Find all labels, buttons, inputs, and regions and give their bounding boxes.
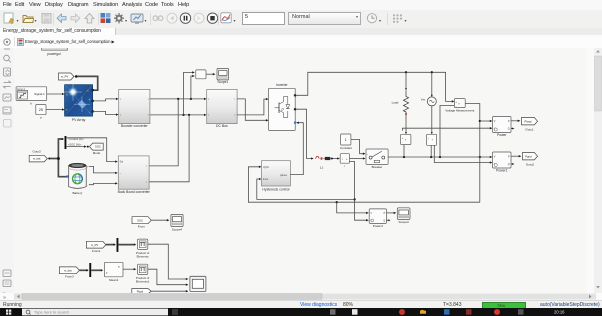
- wire: [237, 99, 267, 115]
- svg-text:Booster converter: Booster converter: [121, 124, 149, 128]
- pause button: [180, 13, 190, 23]
- svg-text:Load: Load: [392, 101, 399, 105]
- svg-text:SOC: SOC: [137, 218, 143, 222]
- wire: [350, 162, 368, 221]
- svg-text:Power3: Power3: [373, 224, 384, 228]
- svg-text:25: 25: [39, 108, 43, 112]
- monitor icon: [131, 14, 143, 22]
- back arrow: [57, 14, 66, 22]
- wire: [248, 167, 479, 202]
- mux block: [196, 70, 206, 79]
- svg-text:Power1: Power1: [496, 169, 508, 173]
- up arrow: [85, 14, 94, 24]
- wire: [237, 99, 267, 120]
- selector bar 2: [89, 263, 91, 277]
- goto tag Pload: [522, 118, 538, 125]
- svg-text:From3: From3: [65, 275, 74, 279]
- scope (multi-input): [190, 276, 206, 291]
- wire: [403, 145, 405, 157]
- wire: [191, 76, 194, 99]
- wire: [350, 158, 365, 160]
- svg-text:Signal 1: Signal 1: [34, 92, 45, 96]
- forward arrow (disabled): [71, 14, 80, 22]
- svg-text:powergui: powergui: [47, 52, 61, 56]
- wire: [148, 244, 187, 279]
- current measurement block i: [340, 154, 349, 164]
- svg-text:1: 1: [345, 138, 347, 142]
- wire: [106, 244, 115, 246]
- wire: [123, 268, 135, 270]
- wire: [150, 114, 206, 116]
- selector bar: [117, 238, 119, 252]
- current measurement block i1: [427, 134, 437, 145]
- horizontal scrollbar: [0, 293, 602, 300]
- goto tag SOC (Mode): [90, 143, 104, 150]
- svg-text:m_bat: m_bat: [33, 157, 41, 161]
- wire: [77, 76, 98, 90]
- toolbar: [0, 10, 602, 29]
- step back (disabled): [167, 13, 177, 23]
- connect icon (disabled): [153, 16, 158, 21]
- wire: [89, 183, 117, 184]
- svg-text:Sol: Sol: [120, 161, 124, 164]
- wire: [49, 158, 59, 160]
- wire: [511, 120, 519, 122]
- status bar: [0, 300, 602, 309]
- wire: [149, 115, 189, 182]
- voltage measurement block: [454, 99, 465, 108]
- wire: [257, 179, 355, 199]
- wire: [150, 98, 206, 100]
- PV Array block: [65, 85, 93, 116]
- subsystem Booster converter: [119, 90, 150, 124]
- wire: [480, 120, 491, 122]
- vertical scrollbar: [594, 48, 602, 293]
- wire: [296, 72, 453, 101]
- svg-text:DC Bus: DC Bus: [216, 124, 228, 128]
- subsystem DC Bus: [207, 90, 237, 124]
- wire: [91, 269, 102, 271]
- svg-text:Ir: Ir: [30, 101, 32, 105]
- menu bar: [0, 0, 602, 10]
- constant block 25 (temperature): [36, 105, 46, 115]
- svg-text:20:16: 20:16: [554, 310, 565, 315]
- wire: [296, 109, 312, 158]
- svg-text:SOC: SOC: [95, 145, 101, 149]
- wire: [431, 106, 433, 133]
- svg-text:<SOC (%)>: <SOC (%)>: [68, 142, 82, 146]
- inductor L1 (series RLC branch): [316, 157, 320, 159]
- svg-text:T: T: [40, 116, 42, 120]
- wire: [184, 72, 194, 115]
- svg-text:m_bat: m_bat: [64, 268, 72, 272]
- svg-text:Goto1: Goto1: [525, 127, 534, 131]
- power measurement block Power: [493, 117, 512, 133]
- wire: [465, 104, 480, 203]
- svg-text:Voltage Measurement: Voltage Measurement: [445, 109, 474, 113]
- svg-text:pulses: pulses: [280, 174, 288, 177]
- stop button: [207, 13, 217, 23]
- power measurement block Power1: [493, 152, 512, 168]
- wire: [66, 146, 85, 148]
- svg-text:Type here to search: Type here to search: [34, 310, 69, 315]
- wire: [290, 123, 303, 175]
- breadcrumb: [0, 35, 602, 49]
- wire: [66, 138, 116, 162]
- from tag m_bat (From3): [59, 267, 79, 274]
- wire: [94, 99, 118, 101]
- svg-text:From1: From1: [92, 249, 101, 253]
- battery block: [69, 166, 87, 189]
- svg-text:Vm: Vm: [421, 97, 426, 101]
- svg-text:Q: Q: [383, 221, 385, 223]
- wire: [206, 73, 214, 75]
- svg-text:Pload: Pload: [524, 119, 531, 123]
- constant block 1 (breaker control): [341, 134, 351, 145]
- svg-text:T: T: [66, 108, 68, 112]
- wire: [47, 93, 64, 95]
- svg-text:m_PV: m_PV: [61, 75, 69, 79]
- wire: [511, 155, 520, 157]
- wire: [94, 111, 118, 114]
- svg-text:<Current (A)>: <Current (A)>: [68, 137, 84, 141]
- svg-text:Scope4: Scope4: [172, 228, 183, 232]
- Mean block Mean1: [104, 262, 123, 277]
- svg-text:Mode: Mode: [93, 151, 101, 155]
- svg-text:Elements: Elements: [137, 254, 150, 258]
- svg-text:Goto3: Goto3: [33, 150, 42, 154]
- svg-text:From: From: [138, 225, 146, 229]
- wire: [79, 269, 88, 271]
- voltage measurement block v1: [401, 134, 411, 144]
- open icon: [23, 16, 33, 23]
- from tag SOC: [132, 217, 151, 224]
- svg-text:Q: Q: [508, 128, 510, 131]
- new model icon: [4, 13, 13, 23]
- wire: [440, 106, 454, 158]
- svg-text:L1: L1: [320, 165, 324, 169]
- svg-text:PV Array: PV Array: [72, 118, 86, 122]
- power measurement block Power3: [369, 209, 386, 224]
- wire: [89, 166, 117, 173]
- wire: [58, 139, 68, 177]
- svg-text:Pgrid: Pgrid: [525, 154, 532, 158]
- svg-text:Scope1: Scope1: [217, 80, 228, 84]
- svg-text:Inverter: Inverter: [276, 83, 288, 87]
- gutter + canvas: [586, 48, 594, 293]
- goto tag m_PV: [59, 73, 74, 80]
- windows taskbar: [0, 308, 602, 316]
- wire: [388, 156, 491, 158]
- svg-text:-: -: [89, 110, 90, 114]
- svg-text:-: -: [87, 183, 88, 187]
- svg-text:Scope3: Scope3: [399, 220, 410, 224]
- gear icon: [116, 15, 123, 22]
- from tag Pload: [132, 289, 151, 294]
- svg-text:Mean1: Mean1: [109, 278, 119, 282]
- subsystem Inverter: [269, 88, 296, 130]
- svg-text:Imes: Imes: [263, 178, 269, 181]
- wire: [151, 219, 168, 221]
- subsystem Buck Boost converter: [118, 156, 149, 189]
- wire: [434, 145, 491, 162]
- breaker block: [366, 149, 388, 164]
- svg-text:Hysteresis control: Hysteresis control: [262, 187, 289, 191]
- svg-text:Q: Q: [508, 163, 510, 166]
- wire: [149, 99, 178, 166]
- Product of Elements block: [138, 239, 148, 249]
- wire: [148, 269, 187, 285]
- wire: [405, 72, 407, 89]
- left palette: [0, 48, 15, 293]
- wire: [46, 109, 63, 111]
- wire: [118, 244, 135, 246]
- Product of Elements1 block: [138, 264, 148, 274]
- scope Scope3: [397, 208, 410, 220]
- wire: [387, 212, 396, 214]
- save icon (disabled): [42, 14, 51, 24]
- bus selector bar: [65, 136, 67, 149]
- subsystem Hysteresis control: [262, 161, 291, 186]
- wire: [431, 72, 433, 95]
- svg-text:+: +: [89, 98, 91, 102]
- svg-text:Elements1: Elements1: [136, 279, 150, 283]
- svg-text:-: -: [456, 104, 457, 108]
- wire: [351, 140, 364, 154]
- wire: [330, 158, 338, 160]
- wire: [151, 290, 187, 292]
- tab bar: [0, 28, 602, 36]
- svg-text:Vgrid: Vgrid: [263, 166, 269, 169]
- wire: [405, 115, 407, 133]
- wire: [337, 202, 368, 213]
- svg-text:m_PV: m_PV: [91, 243, 99, 247]
- library browser icon: [101, 13, 106, 18]
- from tag m_PV (From1): [86, 241, 106, 248]
- svg-text:Goto2: Goto2: [526, 162, 535, 166]
- svg-text:Ir: Ir: [66, 92, 68, 96]
- svg-text:Power: Power: [497, 133, 507, 137]
- wire: [403, 128, 492, 130]
- wire: [430, 145, 432, 157]
- svg-text:-: -: [402, 141, 403, 144]
- step forward (disabled): [194, 13, 204, 23]
- svg-text:Buck Boost converter: Buck Boost converter: [118, 190, 151, 194]
- goto tag Pgrid: [523, 153, 538, 160]
- goto tag m_bat: [29, 155, 47, 162]
- svg-text:Constant: Constant: [340, 146, 352, 150]
- svg-text:Battery: Battery: [72, 191, 82, 195]
- signal builder block Ir source: [16, 87, 47, 101]
- powergui block (clipped): [42, 48, 68, 51]
- svg-text:Breaker: Breaker: [372, 165, 383, 169]
- data inspector icon: [221, 13, 231, 23]
- scope Scope4: [171, 214, 183, 226]
- scope Scope1: [217, 68, 229, 80]
